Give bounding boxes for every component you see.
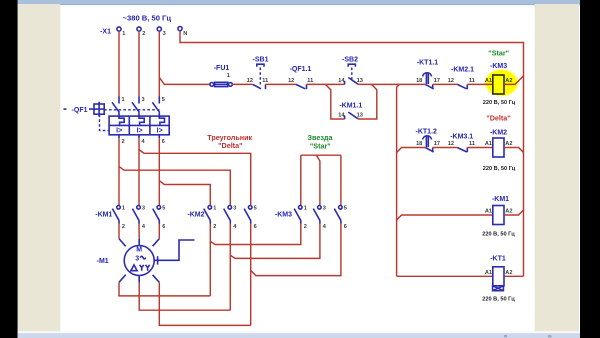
- wire pole4 down to KM1 contact 3: [138, 138, 140, 205]
- QF1 bottom stubs: [118, 135, 120, 139]
- svg-text:"Star": "Star": [488, 49, 509, 58]
- svg-text:11: 11: [307, 78, 313, 84]
- branch down from main to KM1.1 (right): [358, 84, 377, 119]
- svg-text:"Delta": "Delta": [218, 141, 242, 150]
- svg-text:3: 3: [142, 97, 145, 103]
- wire KM1-6 to motor W1: [158, 224, 160, 239]
- motor M1: [97, 239, 195, 283]
- svg-text:1: 1: [122, 97, 125, 103]
- QF1 thermal element 3: [159, 116, 164, 125]
- breaker QF1: [64, 97, 170, 146]
- aux contact QF1.1 (NC): [288, 66, 313, 89]
- svg-text:"Delta": "Delta": [486, 113, 510, 122]
- yellow highlighter on KM3 coil: [484, 69, 519, 97]
- wire motor U2 loop to KM2-2 and KM3-2: [119, 282, 210, 296]
- svg-text:1: 1: [122, 31, 125, 37]
- QF1 thermal element 1: [119, 116, 124, 125]
- wire pole6 down to KM1 contact 5: [158, 138, 160, 205]
- KM2 contact 5-6: [244, 205, 257, 230]
- svg-text:5: 5: [162, 97, 165, 103]
- star point bar: [301, 154, 341, 156]
- wire SB2 to bus taps: [358, 83, 425, 85]
- svg-text:6: 6: [344, 224, 347, 230]
- svg-text:-KM1.1: -KM1.1: [339, 103, 362, 110]
- svg-text:6: 6: [254, 224, 257, 230]
- svg-text:18: 18: [416, 78, 422, 84]
- svg-text:N: N: [183, 31, 187, 37]
- rung4 from left bus: [397, 275, 493, 277]
- svg-text:3: 3: [233, 205, 236, 211]
- wire feed H1 pole4 to KM2 contact 5: [139, 150, 251, 206]
- wire KT1 coil to right bus: [504, 275, 524, 277]
- left beige panel: [18, 4, 61, 331]
- QF1 pole 3 switch: [138, 97, 140, 104]
- svg-text:-KM3: -KM3: [275, 211, 292, 218]
- KM3 contact 1-2: [294, 205, 307, 230]
- QF1 linkage dashed: [104, 109, 159, 111]
- svg-text:A2: A2: [505, 141, 512, 147]
- wire KT1.2 to KM3.1: [433, 147, 458, 149]
- svg-text:2: 2: [122, 139, 125, 145]
- rung3 from left bus: [397, 215, 493, 220]
- svg-text:1: 1: [122, 205, 125, 211]
- wire feed H3 pole6 to KM2 contact 1: [159, 181, 210, 206]
- svg-text:5: 5: [254, 205, 257, 211]
- svg-text:3: 3: [142, 205, 145, 211]
- wire L3 down to breaker: [158, 31, 160, 96]
- svg-text:I>: I>: [116, 128, 122, 135]
- wire feed H2 pole2 to KM2 contact 3: [119, 166, 230, 205]
- svg-text:A2: A2: [505, 270, 512, 276]
- bottom scrollbar strip: [18, 331, 580, 338]
- KM3 contact 5-6: [334, 205, 347, 230]
- svg-text:I>: I>: [137, 128, 143, 135]
- svg-text:220 В, 50 Гц: 220 В, 50 Гц: [483, 166, 516, 172]
- terminal X1:1: [117, 27, 121, 31]
- svg-text:3: 3: [135, 255, 139, 262]
- wire KM1-2 to motor U1: [118, 224, 120, 239]
- wire motor V2 loop to KM2-4 and KM3-4: [139, 283, 230, 310]
- wire star bar to KM3 contact 3: [316, 155, 320, 205]
- svg-text:"Star": "Star": [310, 142, 331, 151]
- svg-text:~380 В, 50 Гц: ~380 В, 50 Гц: [123, 15, 172, 22]
- coil KM1: [485, 196, 513, 225]
- svg-text:3: 3: [323, 205, 326, 211]
- svg-text:12: 12: [288, 78, 294, 84]
- terminal X1:2: [137, 27, 141, 31]
- svg-text:A1: A1: [485, 141, 492, 147]
- svg-text:2: 2: [304, 224, 307, 230]
- wire pole2 down to KM1 contact 1: [118, 138, 120, 205]
- svg-text:220 В, 50 Гц: 220 В, 50 Гц: [483, 100, 516, 106]
- wire QF1.1 to SB2: [307, 83, 345, 85]
- terminal X1:3: [157, 27, 161, 31]
- svg-text:2: 2: [122, 224, 125, 230]
- latch contact KM1.1 (NO): [338, 103, 363, 120]
- svg-text:I>: I>: [157, 128, 163, 135]
- svg-text:Звезда: Звезда: [308, 133, 334, 142]
- svg-text:-KM3.1: -KM3.1: [450, 134, 473, 141]
- svg-text:-KT1: -KT1: [490, 256, 506, 263]
- svg-text:A1: A1: [485, 270, 492, 276]
- wire motor W2 loop to KM2-6 and KM3-6: [159, 282, 250, 325]
- svg-text:3: 3: [163, 31, 166, 37]
- pushbutton SB2 (NO start): [338, 57, 363, 85]
- svg-text:12: 12: [448, 78, 454, 84]
- wire FU1 to SB1: [232, 83, 252, 85]
- svg-text:-KT1.1: -KT1.1: [417, 60, 439, 67]
- motor PE lead: [154, 240, 194, 260]
- svg-text:11: 11: [469, 141, 475, 147]
- svg-text:2: 2: [213, 224, 216, 230]
- aux contact KM2.1 (NC): [448, 67, 475, 90]
- svg-text:2: 2: [142, 31, 145, 37]
- svg-text:1: 1: [227, 73, 230, 79]
- left black bar: [0, 0, 18, 338]
- KM1 contact 1-2: [112, 205, 125, 230]
- timer contact KT1.2 (delayed): [415, 129, 440, 153]
- svg-text:220 В, 50 Гц: 220 В, 50 Гц: [482, 297, 515, 303]
- left control bus: [397, 84, 400, 276]
- wire KM1 coil to right bus: [504, 210, 524, 215]
- wire SB1 to QF1.1: [266, 83, 296, 85]
- wire L2 down to breaker: [138, 31, 140, 96]
- svg-text:-M1: -M1: [97, 258, 109, 265]
- svg-text:11: 11: [262, 78, 268, 84]
- svg-text:5: 5: [162, 205, 165, 211]
- KM1 contact 3-4: [132, 205, 146, 230]
- svg-text:12: 12: [247, 78, 253, 84]
- wire KM2.1 to KM3 coil: [467, 83, 493, 85]
- svg-text:6: 6: [162, 224, 165, 230]
- wire KM3 coil to right bus: [504, 76, 524, 85]
- svg-text:6: 6: [162, 139, 165, 145]
- QF1 pole 1 switch: [118, 97, 120, 104]
- coil KM3: [485, 63, 513, 94]
- right beige panel: [535, 4, 579, 331]
- svg-text:-QF1: -QF1: [72, 107, 88, 114]
- svg-text:-KM1: -KM1: [95, 211, 112, 218]
- svg-text:17: 17: [434, 78, 440, 84]
- pushbutton SB1 (NC stop): [247, 57, 269, 90]
- svg-text:-SB1: -SB1: [253, 57, 269, 64]
- QF1 thermal element 2: [139, 116, 144, 125]
- wire KT1.1 to KM2.1: [433, 83, 458, 85]
- canvas edge tick: [64, 108, 67, 110]
- timer coil KT1: [485, 256, 513, 291]
- svg-text:18: 18: [416, 141, 422, 147]
- svg-text:M: M: [136, 247, 142, 254]
- KM2 contact 1-2: [204, 205, 217, 230]
- wire N to right bus: [180, 31, 524, 276]
- QF1 pole 5 switch: [158, 97, 160, 104]
- QF1 operator box: [94, 104, 104, 114]
- svg-text:-KM2.1: -KM2.1: [451, 67, 474, 74]
- aux contact KM3.1 (NC): [448, 134, 475, 153]
- QF1 trip linkage dashed L: [100, 115, 110, 131]
- svg-text:17: 17: [434, 141, 440, 147]
- svg-text:1: 1: [213, 205, 216, 211]
- right black bar: [580, 0, 600, 338]
- wire KM1-4 to motor V1: [138, 224, 140, 239]
- wire KM2 coil to right bus: [504, 148, 524, 153]
- wire star bar to KM3 contact 5: [340, 155, 342, 205]
- svg-text:1: 1: [304, 205, 307, 211]
- rung2 from left bus: [397, 148, 426, 153]
- wire star bar to KM3 contact 1: [300, 155, 302, 205]
- wire tap from L3 to control fuse: [159, 77, 210, 84]
- svg-text:-KM2: -KM2: [490, 130, 507, 137]
- svg-text:220 В, 50 Гц: 220 В, 50 Гц: [482, 231, 515, 237]
- wire L1 down to breaker: [118, 31, 120, 96]
- svg-text:-KT1.2: -KT1.2: [415, 129, 437, 136]
- svg-text:-X1: -X1: [100, 29, 111, 36]
- svg-text:12: 12: [448, 141, 454, 147]
- branch down to KM1.1 (left): [325, 84, 344, 119]
- terminal X1:N: [178, 27, 182, 31]
- wire KM3.1 to KM2 coil: [467, 147, 493, 149]
- svg-text:A2: A2: [505, 209, 512, 215]
- timer contact KT1.1 (NC delayed): [416, 60, 440, 90]
- svg-text:-SB2: -SB2: [342, 57, 358, 64]
- svg-text:5: 5: [344, 205, 347, 211]
- svg-text:A1: A1: [485, 209, 492, 215]
- KM2 contact 3-4: [224, 205, 238, 230]
- svg-text:-FU1: -FU1: [214, 65, 230, 72]
- KM1 contact 5-6: [153, 205, 166, 230]
- svg-text:-KM2: -KM2: [187, 211, 204, 218]
- svg-text:-KM1: -KM1: [492, 196, 509, 203]
- svg-text:11: 11: [469, 78, 475, 84]
- coil KM2: [485, 130, 513, 158]
- fuse FU1: [210, 65, 232, 87]
- svg-text:-QF1.1: -QF1.1: [290, 66, 312, 73]
- KM3 contact 3-4: [313, 205, 327, 230]
- QF1 trip unit box: [109, 116, 169, 135]
- top window strip: [18, 0, 580, 5]
